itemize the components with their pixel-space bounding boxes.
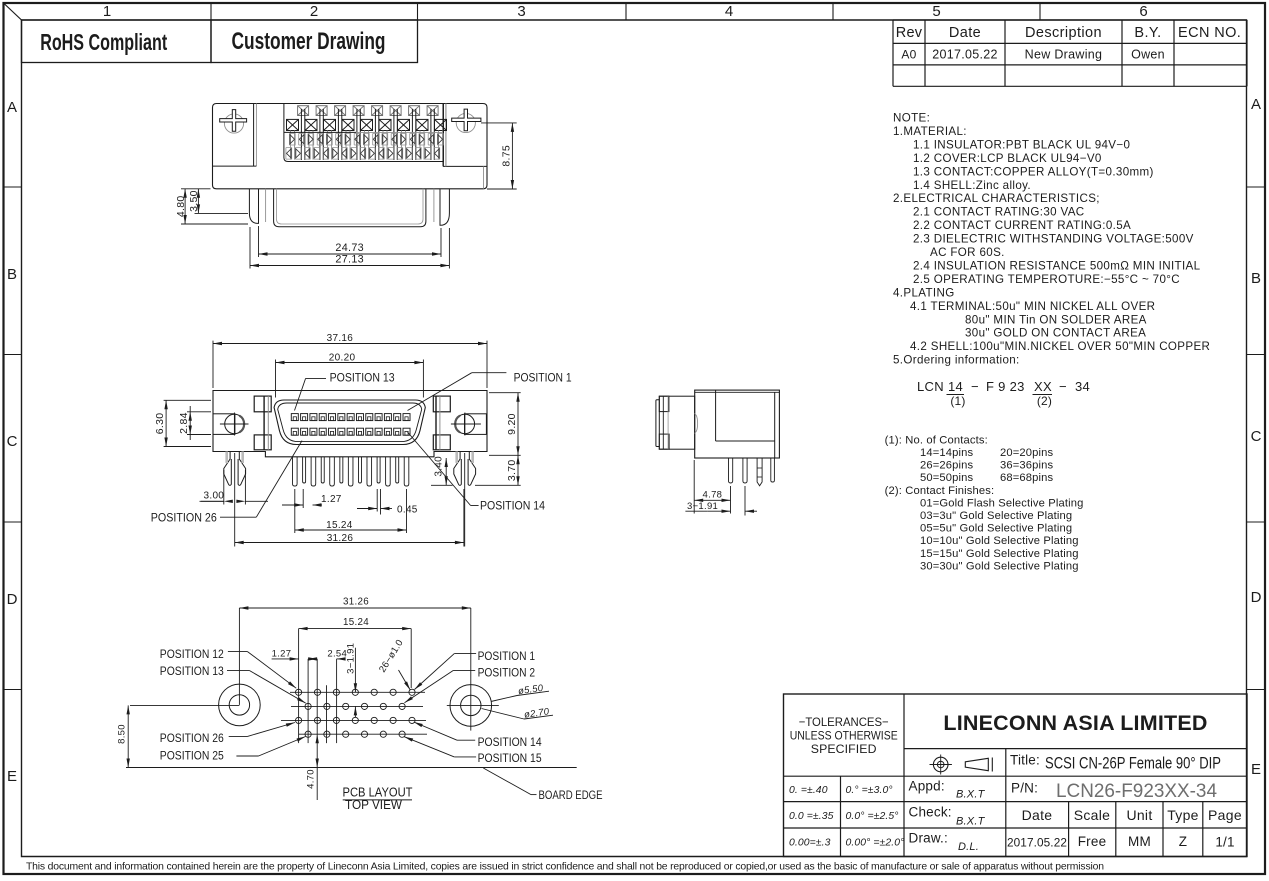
pcb left mounting hole — [219, 684, 261, 726]
rear view solder cup legs from row B — [290, 131, 292, 160]
svg-text:POSITION 1: POSITION 1 — [478, 651, 535, 663]
front view left leg centerline — [234, 453, 236, 547]
front view right screw hole — [455, 414, 474, 433]
svg-text:MM: MM — [1128, 834, 1151, 849]
svg-text:POSITION 26: POSITION 26 — [151, 512, 217, 524]
rear view solder cups row B (9 with X) — [287, 119, 299, 130]
svg-text:26=26pins: 26=26pins — [920, 460, 974, 472]
svg-text:A: A — [7, 99, 17, 116]
svg-text:3−1.91: 3−1.91 — [687, 501, 718, 512]
svg-text:0.° =±3.0°: 0.° =±3.0° — [846, 785, 893, 796]
side view latch bump — [695, 413, 698, 433]
rear view screw right — [456, 113, 475, 132]
front view body outline — [213, 391, 487, 457]
svg-text:2.ELECTRICAL CHARACTERISTICS;: 2.ELECTRICAL CHARACTERISTICS; — [893, 192, 1100, 205]
front view left boardlock leg — [224, 452, 232, 486]
svg-text:34: 34 — [1075, 379, 1090, 394]
svg-text:Appd:: Appd: — [909, 779, 945, 794]
svg-text:15=15u" Gold Selective Plat: 15=15u" Gold Selective Plating — [920, 548, 1079, 560]
rear view solder cups row A (8 with X) — [298, 106, 309, 116]
dimension 3.00 below left leg — [223, 470, 225, 505]
svg-text:5: 5 — [932, 3, 940, 20]
svg-text:Draw.:: Draw.: — [909, 831, 948, 846]
svg-text:4.70: 4.70 — [306, 769, 317, 789]
svg-text:68=68pins: 68=68pins — [1000, 472, 1054, 484]
svg-text:4.78: 4.78 — [703, 489, 723, 500]
svg-text:E: E — [1251, 761, 1261, 778]
dimension 8.75 right of rear view — [481, 122, 517, 124]
svg-text:30=30u" Gold Selective Plat: 30=30u" Gold Selective Plating — [920, 560, 1079, 572]
svg-text:1.27: 1.27 — [272, 649, 292, 660]
Customer Drawing box — [211, 20, 418, 63]
front view right ear tabs — [433, 396, 450, 412]
svg-text:New Drawing: New Drawing — [1025, 48, 1103, 62]
rear view contact block outline — [284, 104, 444, 162]
svg-text:05=5u" Gold Selective Plati: 05=5u" Gold Selective Plating — [920, 523, 1072, 535]
side view flange lip — [656, 400, 659, 447]
svg-text:6: 6 — [1139, 3, 1147, 20]
dimension 27.13 below rear view — [249, 227, 251, 269]
svg-text:SPECIFIED: SPECIFIED — [811, 742, 877, 756]
svg-text:POSITION 14: POSITION 14 — [478, 737, 543, 749]
dimension 24.73 below rear view — [258, 226, 260, 257]
side view flange bottom tab — [659, 434, 669, 449]
svg-text:0.0° =±2.5°: 0.0° =±2.5° — [846, 811, 899, 822]
svg-text:A: A — [1251, 96, 1261, 113]
svg-text:37.16: 37.16 — [327, 333, 354, 344]
front view right leg centerline — [464, 453, 466, 547]
rear view shroud below body - left hook — [249, 189, 258, 224]
svg-text:ECN NO.: ECN NO. — [1178, 25, 1241, 41]
svg-text:0.00=±.3: 0.00=±.3 — [789, 838, 831, 849]
svg-text:15.24: 15.24 — [343, 617, 369, 628]
zone ticks right border — [1247, 186, 1265, 188]
svg-text:20.20: 20.20 — [329, 352, 356, 363]
svg-text:2.4 INSULATION RESISTANCE 5: 2.4 INSULATION RESISTANCE 500mΩ MIN INIT… — [913, 259, 1201, 272]
pcb column centerlines — [298, 629, 300, 744]
svg-text:Date: Date — [949, 25, 981, 41]
third angle projection symbol — [933, 757, 948, 772]
svg-text:1.MATERIAL:: 1.MATERIAL: — [893, 125, 967, 138]
svg-text:This document and informati: This document and information contained … — [26, 862, 1104, 873]
rear view body outline — [213, 104, 488, 189]
svg-text:BOARD EDGE: BOARD EDGE — [539, 790, 603, 802]
pcb row centerlines — [290, 691, 425, 693]
svg-text:6.30: 6.30 — [154, 413, 166, 435]
dimension 9.20 right of front view — [489, 392, 521, 394]
pcb right mounting hole — [450, 685, 492, 727]
svg-text:4: 4 — [725, 3, 733, 20]
svg-text:D: D — [7, 591, 18, 608]
front view left ear tabs — [254, 396, 271, 412]
svg-text:Scale: Scale — [1074, 807, 1111, 823]
svg-text:1.27: 1.27 — [321, 494, 342, 505]
svg-text:80u" MIN Tin ON SOLDER AR: 80u" MIN Tin ON SOLDER AREA — [965, 313, 1147, 326]
svg-text:Z: Z — [1179, 834, 1187, 849]
svg-text:31.26: 31.26 — [327, 533, 354, 544]
svg-text:3: 3 — [517, 3, 525, 20]
svg-text:(2): (2) — [1037, 394, 1052, 408]
svg-text:36=36pins: 36=36pins — [1000, 460, 1054, 472]
svg-text:2.84: 2.84 — [178, 412, 190, 434]
dimension 3.40 right of front view — [431, 484, 453, 486]
svg-text:POSITION 25: POSITION 25 — [160, 750, 224, 762]
svg-text:NOTE:: NOTE: — [893, 112, 930, 125]
svg-text:14: 14 — [948, 379, 963, 394]
svg-text:−TOLERANCES−: −TOLERANCES− — [799, 715, 889, 729]
svg-text:POSITION 13: POSITION 13 — [330, 372, 395, 384]
front view left screw hole — [225, 414, 244, 433]
svg-text:B: B — [7, 266, 17, 283]
svg-text:4.PLATING: 4.PLATING — [893, 286, 955, 299]
svg-text:POSITION 12: POSITION 12 — [160, 649, 224, 661]
side view pins (4) — [729, 458, 733, 483]
dimension 4.78 below side view — [693, 460, 695, 514]
svg-text:1.1 INSULATOR:PBT BLACK UL: 1.1 INSULATOR:PBT BLACK UL 94V−0 — [913, 138, 1130, 151]
svg-text:−: − — [971, 379, 979, 394]
dimension 3-1.91 below side view — [744, 486, 746, 516]
rear view shroud inner box — [274, 189, 426, 227]
zone ticks top border — [210, 3, 212, 20]
svg-text:31.26: 31.26 — [343, 596, 369, 607]
dimension 37.16 above front view — [212, 341, 214, 388]
svg-text:1.4 SHELL:Zinc alloy.: 1.4 SHELL:Zinc alloy. — [913, 179, 1031, 192]
side view internal step lines — [715, 390, 717, 441]
dimension 3.70 right of front view — [475, 484, 521, 486]
svg-text:3.70: 3.70 — [506, 459, 518, 481]
svg-text:30u" GOLD ON CONTACT AREA: 30u" GOLD ON CONTACT AREA — [965, 327, 1146, 340]
svg-text:LCN: LCN — [917, 379, 944, 394]
svg-text:XX: XX — [1034, 379, 1052, 394]
svg-text:SCSI CN-26P Female 90° DIP: SCSI CN-26P Female 90° DIP — [1045, 755, 1221, 773]
svg-text:27.13: 27.13 — [335, 253, 364, 265]
pcb layout hole grid — [296, 689, 302, 695]
front view D-shell outer — [274, 400, 425, 445]
dimension 31.26 above pcb — [239, 607, 470, 609]
svg-text:POSITION 14: POSITION 14 — [480, 501, 546, 513]
dimension 15.24 below front view — [294, 489, 296, 533]
svg-text:1.3 CONTACT:COPPER ALLOY(T=0: 1.3 CONTACT:COPPER ALLOY(T=0.30mm) — [913, 165, 1154, 178]
svg-text:Rev: Rev — [896, 25, 923, 41]
svg-text:B.Y.: B.Y. — [1134, 25, 1161, 41]
front view solder pins (13) — [293, 457, 298, 486]
svg-text:(1): No. of Contacts:: (1): No. of Contacts: — [885, 434, 988, 446]
svg-text:C: C — [1251, 428, 1262, 445]
svg-text:(1): (1) — [950, 394, 965, 408]
svg-text:4.80: 4.80 — [175, 195, 187, 217]
svg-text:P/N:: P/N: — [1011, 781, 1038, 796]
svg-text:RoHS Compliant: RoHS Compliant — [40, 29, 167, 55]
revision table grid — [893, 19, 1247, 21]
svg-text:20=20pins: 20=20pins — [1000, 447, 1054, 459]
svg-text:50=50pins: 50=50pins — [920, 472, 974, 484]
svg-text:2.5 OPERATING TEMPEROTURE:−5: 2.5 OPERATING TEMPEROTURE:−55°C ~ 70°C — [913, 273, 1180, 286]
rear view hidden line through contacts — [284, 131, 356, 133]
svg-text:−: − — [1059, 379, 1067, 394]
svg-text:1.2 COVER:LCP BLACK UL94−V0: 1.2 COVER:LCP BLACK UL94−V0 — [913, 152, 1102, 165]
svg-text:2.1 CONTACT RATING:30 VAC: 2.1 CONTACT RATING:30 VAC — [913, 206, 1085, 219]
front view right screw boss — [465, 414, 487, 435]
dimension 1.27 below pins — [302, 489, 304, 508]
dimension 4.70 pcb — [316, 734, 319, 743]
rear view solder cup legs from row A — [300, 109, 302, 160]
svg-text:9.20: 9.20 — [506, 413, 518, 435]
svg-text:B.X.T: B.X.T — [956, 789, 986, 801]
rear view screw left — [224, 114, 243, 133]
corner diagonal top-left — [4, 4, 22, 21]
svg-text:(2): Contact Finishes:: (2): Contact Finishes: — [885, 485, 995, 497]
svg-text:LINECONN ASIA LIMITED: LINECONN ASIA LIMITED — [943, 711, 1207, 735]
front view left screw boss — [213, 414, 235, 435]
svg-text:24.73: 24.73 — [335, 242, 364, 254]
svg-text:2017.05.22: 2017.05.22 — [932, 48, 998, 62]
svg-text:B: B — [1251, 270, 1261, 287]
svg-text:0.45: 0.45 — [397, 504, 418, 515]
RoHS Compliant box — [22, 20, 212, 63]
svg-text:POSITION 13: POSITION 13 — [160, 666, 224, 678]
zone ticks left border — [4, 186, 22, 188]
svg-text:3−1.91: 3−1.91 — [345, 643, 356, 674]
svg-text:4.1 TERMINAL:50u" MIN NICKE: 4.1 TERMINAL:50u" MIN NICKEL ALL OVER — [910, 300, 1155, 313]
svg-text:14=14pins: 14=14pins — [920, 447, 974, 459]
svg-text:Description: Description — [1025, 25, 1102, 41]
svg-text:0.00° =±2.0°: 0.00° =±2.0° — [846, 838, 905, 849]
svg-text:5.Ordering information:: 5.Ordering information: — [893, 354, 1020, 367]
svg-text:POSITION 1: POSITION 1 — [514, 372, 572, 384]
front view right boardlock leg — [454, 452, 462, 486]
svg-text:1/1: 1/1 — [1215, 835, 1234, 850]
svg-text:LCN26-F923XX-34: LCN26-F923XX-34 — [1056, 781, 1217, 802]
rear view contact slots row C — [289, 134, 295, 146]
svg-text:2.3 DIELECTRIC WITHSTANDING: 2.3 DIELECTRIC WITHSTANDING VOLTAGE:500V — [913, 233, 1194, 246]
rear view right flange step — [442, 104, 444, 167]
dimension 31.26 below front view — [235, 542, 464, 544]
svg-text:4.2 SHELL:100u"MIN.NICKEL OV: 4.2 SHELL:100u"MIN.NICKEL OVER 50"MIN CO… — [910, 340, 1210, 353]
dimension 4.80 left of rear view — [181, 188, 211, 190]
svg-text:8.50: 8.50 — [117, 724, 128, 744]
svg-text:15.24: 15.24 — [326, 520, 353, 531]
rear view left flange step — [253, 104, 255, 167]
svg-text:Page: Page — [1208, 807, 1242, 823]
svg-text:D.L.: D.L. — [958, 841, 979, 853]
svg-text:Unit: Unit — [1126, 807, 1152, 823]
front view D-shell inner — [278, 403, 422, 442]
dimension 2.84 left of front view — [187, 411, 211, 413]
svg-text:B.X.T: B.X.T — [956, 816, 986, 828]
rear view contact slots row D — [286, 148, 292, 160]
side view flange thickness lines — [662, 396, 664, 449]
svg-text:Check:: Check: — [909, 805, 952, 820]
svg-text:AC FOR 60S.: AC FOR 60S. — [930, 246, 1005, 259]
svg-text:03=3u" Gold Selective Plati: 03=3u" Gold Selective Plating — [920, 510, 1072, 522]
svg-text:8.75: 8.75 — [500, 145, 512, 167]
svg-text:POSITION 15: POSITION 15 — [478, 753, 542, 765]
svg-text:0.0 =±.35: 0.0 =±.35 — [789, 811, 834, 822]
svg-text:POSITION 2: POSITION 2 — [478, 668, 535, 680]
dimension 8.50 left of pcb — [127, 705, 129, 767]
side view flange top tab — [659, 396, 669, 411]
svg-text:POSITION 26: POSITION 26 — [160, 733, 224, 745]
svg-text:0. =±.40: 0. =±.40 — [789, 785, 828, 796]
svg-text:10=10u" Gold Selective Plat: 10=10u" Gold Selective Plating — [920, 535, 1079, 547]
svg-text:3.00: 3.00 — [204, 490, 225, 501]
svg-text:C: C — [7, 433, 18, 450]
side view mating shroud — [659, 396, 694, 449]
svg-text:2017.05.22: 2017.05.22 — [1007, 836, 1067, 850]
label BOARD EDGE with leader — [483, 768, 531, 795]
svg-text:2.2 CONTACT CURRENT RATING:: 2.2 CONTACT CURRENT RATING:0.5A — [913, 219, 1131, 232]
svg-text:Date: Date — [1022, 807, 1053, 823]
svg-text:F 9 23: F 9 23 — [986, 379, 1025, 394]
svg-text:3.50: 3.50 — [188, 190, 200, 212]
svg-text:Title:: Title: — [1010, 753, 1040, 768]
dimension 15.24 above pcb — [410, 629, 412, 688]
dimension 0.45 below pins — [376, 489, 378, 512]
svg-text:TOP VIEW: TOP VIEW — [345, 798, 402, 812]
svg-text:E: E — [7, 768, 17, 785]
svg-text:UNLESS OTHERWISE: UNLESS OTHERWISE — [790, 729, 898, 743]
side view boardlock pin — [757, 458, 762, 486]
svg-text:D: D — [1251, 589, 1262, 606]
dimension 6.30 left of front view — [164, 399, 211, 401]
title block grid lines — [903, 694, 905, 857]
svg-text:A0: A0 — [901, 48, 916, 62]
svg-text:2: 2 — [310, 3, 318, 20]
svg-text:01=Gold Flash Selective Pla: 01=Gold Flash Selective Plating — [920, 497, 1084, 509]
svg-text:Free: Free — [1078, 834, 1107, 849]
side view main body — [695, 390, 780, 458]
svg-text:1: 1 — [103, 3, 111, 20]
board edge line — [126, 767, 577, 769]
front view contacts top row (13) — [291, 414, 298, 421]
front view contacts bottom row (13) — [291, 428, 298, 435]
svg-text:Owen: Owen — [1131, 48, 1165, 62]
rear view shroud below body - right hook — [440, 189, 449, 226]
dimension 3.50 left of rear view — [195, 212, 249, 214]
title block outline — [784, 694, 1248, 857]
dimension 20.20 above front view — [275, 360, 277, 398]
svg-text:Customer Drawing: Customer Drawing — [232, 28, 386, 55]
svg-text:Type: Type — [1167, 807, 1199, 823]
